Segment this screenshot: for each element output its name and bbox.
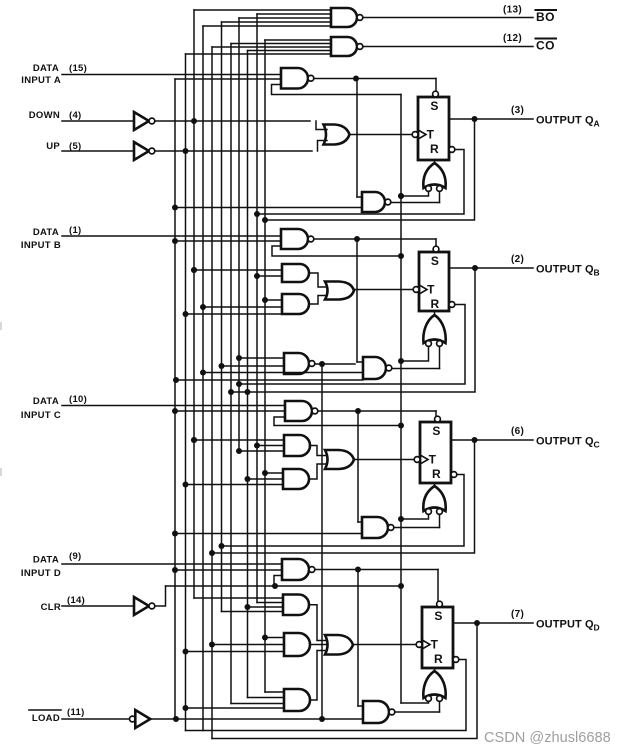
svg-text:S: S	[430, 99, 438, 113]
svg-text:D: D	[594, 623, 600, 633]
svg-text:DATA: DATA	[33, 63, 59, 74]
svg-text:DATA: DATA	[33, 555, 59, 566]
svg-text:CLR: CLR	[41, 602, 61, 613]
svg-text:(4): (4)	[69, 110, 82, 121]
svg-text:S: S	[431, 254, 439, 268]
svg-text:R: R	[431, 297, 440, 311]
svg-text:(3): (3)	[511, 105, 524, 116]
svg-text:DOWN: DOWN	[29, 110, 60, 121]
svg-text:(14): (14)	[67, 595, 85, 606]
svg-text:UP: UP	[46, 141, 60, 152]
svg-text:(6): (6)	[511, 426, 524, 437]
svg-text:S: S	[432, 424, 440, 438]
svg-text:R: R	[430, 142, 439, 156]
svg-text:(13): (13)	[503, 5, 522, 16]
svg-text:(15): (15)	[69, 63, 87, 74]
svg-text:LOAD: LOAD	[32, 713, 60, 724]
svg-text:OUTPUT Q: OUTPUT Q	[536, 264, 594, 276]
svg-text:DATA: DATA	[33, 396, 59, 407]
svg-text:INPUT C: INPUT C	[21, 410, 61, 421]
svg-text:(7): (7)	[511, 609, 524, 620]
svg-text:T: T	[427, 128, 435, 142]
svg-text:(9): (9)	[69, 551, 82, 562]
svg-text:(11): (11)	[67, 707, 85, 718]
svg-text:OUTPUT Q: OUTPUT Q	[536, 115, 594, 127]
svg-text:S: S	[434, 609, 442, 623]
svg-text:(12): (12)	[503, 33, 522, 44]
svg-text:BO: BO	[536, 10, 555, 24]
svg-text:INPUT D: INPUT D	[21, 568, 61, 579]
svg-text:CSDN @zhusl6688: CSDN @zhusl6688	[484, 730, 611, 746]
svg-text:T: T	[429, 453, 437, 467]
svg-text:INPUT B: INPUT B	[21, 240, 61, 251]
svg-text:(10): (10)	[69, 394, 87, 405]
svg-text:R: R	[434, 652, 443, 666]
svg-text:OUTPUT Q: OUTPUT Q	[536, 436, 594, 448]
svg-text:OUTPUT Q: OUTPUT Q	[536, 619, 594, 631]
svg-text:CO: CO	[536, 39, 555, 53]
svg-text:DATA: DATA	[33, 227, 59, 238]
svg-text:(2): (2)	[511, 254, 524, 265]
svg-text:INPUT A: INPUT A	[21, 75, 61, 86]
svg-text:B: B	[594, 268, 600, 278]
svg-text:T: T	[431, 638, 439, 652]
svg-text:A: A	[594, 119, 600, 129]
svg-text:C: C	[594, 440, 600, 450]
svg-text:R: R	[432, 467, 441, 481]
svg-text:(1): (1)	[69, 225, 82, 236]
